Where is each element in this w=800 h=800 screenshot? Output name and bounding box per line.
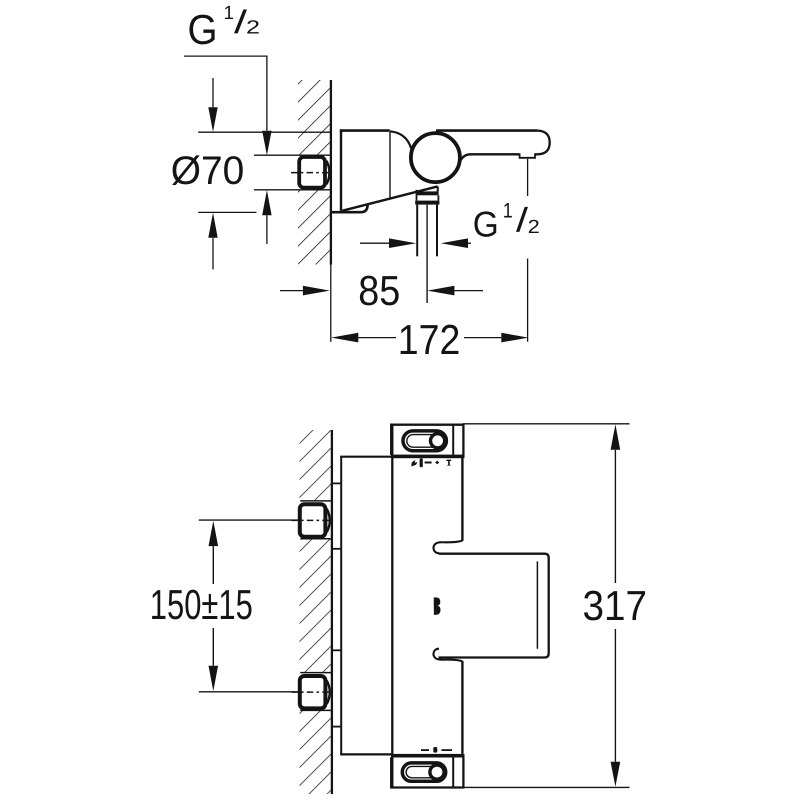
upper union square nut xyxy=(300,504,326,536)
faucet body top edge xyxy=(340,129,390,132)
union center line (dash-dot) xyxy=(291,172,331,174)
handle bottom hook xyxy=(433,649,462,662)
spout bottom edge xyxy=(460,154,538,162)
shower pipe walls xyxy=(416,205,418,257)
wall union thin lines (top figure) xyxy=(254,154,331,156)
union dome end xyxy=(327,161,330,185)
top housing box xyxy=(391,425,463,455)
upper union center line xyxy=(291,519,331,521)
body bottom diagonal xyxy=(342,186,438,210)
dimension 150±15 extension lines xyxy=(199,519,300,521)
faucet body left edge xyxy=(340,130,342,211)
dimension 317 bottom arrow xyxy=(614,629,616,762)
wall face line (bottom figure) xyxy=(331,430,333,794)
G1/2 down arrow at union xyxy=(262,131,271,155)
lower union square nut xyxy=(300,676,326,708)
spout rounded end xyxy=(537,131,549,155)
dimension 172 : right arrow xyxy=(464,337,501,339)
bottom oval slot xyxy=(402,763,445,781)
lower union plate lines xyxy=(300,672,331,674)
dimension 172 : left arrow xyxy=(331,333,358,343)
svg-text:1: 1 xyxy=(224,3,235,24)
dimension 85 : left arrow at wall xyxy=(280,290,303,292)
Ø70 lower arrow xyxy=(208,213,217,238)
svg-text:1: 1 xyxy=(503,199,513,222)
leader line from G1/2 label xyxy=(184,56,267,131)
dimension 150±15 bottom arrow xyxy=(212,628,214,666)
Ø70 upper arrow xyxy=(212,78,214,107)
dimension G1/2 at pipe : right arrow xyxy=(441,238,468,248)
G1/2 up arrow below union xyxy=(262,190,271,215)
svg-text:G: G xyxy=(473,203,499,244)
svg-text:172: 172 xyxy=(398,316,461,363)
dimension Ø70 extension line top xyxy=(198,131,331,133)
dimension 150±15 top arrow xyxy=(209,521,219,546)
body front left edge xyxy=(391,425,393,788)
wall hatch (bottom figure) xyxy=(300,430,332,501)
pipe center extension line xyxy=(426,205,428,303)
dimension Ø70 extension line bottom xyxy=(198,211,256,213)
handle inner line xyxy=(536,561,538,648)
body front right edge upper xyxy=(461,458,463,541)
spout top edge xyxy=(436,129,538,132)
wall face line (top figure) xyxy=(330,80,332,265)
svg-text:85: 85 xyxy=(358,267,400,314)
svg-text:150±15: 150±15 xyxy=(150,581,253,628)
upper union plate lines xyxy=(300,500,331,502)
wall hatch (top figure) xyxy=(298,80,331,155)
dimension 317 top arrow xyxy=(611,424,621,449)
body front right edge lower xyxy=(461,661,463,754)
handle top hook xyxy=(433,541,462,554)
fillet top to knob xyxy=(390,131,411,148)
back plate left edge xyxy=(340,457,342,755)
outlet extension line (172) xyxy=(527,159,529,196)
shower pipe nut bands xyxy=(416,191,438,195)
thermostat knob circle xyxy=(411,133,460,182)
upper union dome xyxy=(327,509,330,532)
svg-text:Ø70: Ø70 xyxy=(171,149,245,193)
body foot bottom xyxy=(331,205,368,213)
mounting tab lines xyxy=(332,482,341,484)
dimension G1/2 at pipe : left arrow xyxy=(360,242,389,244)
svg-text:317: 317 xyxy=(583,582,648,629)
svg-text:2: 2 xyxy=(528,217,540,238)
handle outline xyxy=(439,554,549,658)
lower union dome xyxy=(327,681,330,704)
spout outlet xyxy=(520,153,535,157)
svg-text:/: / xyxy=(516,202,529,240)
control icons row xyxy=(411,458,451,467)
top oval slot xyxy=(403,431,446,451)
shower connection right edge xyxy=(437,186,439,191)
safety stop mark xyxy=(421,747,452,753)
svg-text:2: 2 xyxy=(246,18,260,39)
lower union center line xyxy=(291,691,331,693)
wall union square nut (top figure) xyxy=(299,157,325,188)
bottom housing box xyxy=(391,757,463,787)
back plate bottom edge xyxy=(340,753,392,755)
svg-text:G: G xyxy=(188,6,218,53)
dimension 317 extension lines xyxy=(463,423,630,425)
body divider line xyxy=(389,132,391,198)
wall extension line down to 172 dimension xyxy=(330,265,332,342)
dimension 85 : right arrow at pipe center xyxy=(427,286,454,296)
grohe logo blob xyxy=(434,597,441,615)
back plate top edge xyxy=(340,456,392,458)
